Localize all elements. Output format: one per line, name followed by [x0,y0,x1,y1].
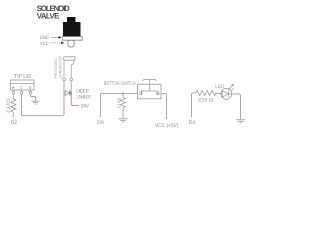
wire TIP120 collector to photocell pin 1 [22,81,65,116]
pushbutton S1 [138,79,162,98]
svg-text:E: E [29,85,32,90]
connector J1 PHOTOCELL CONNECTOR [54,56,75,81]
ground GND3 [236,120,245,123]
svg-text:2.2 KΩ: 2.2 KΩ [5,98,10,113]
wire D4 to resistor R3 [192,93,197,117]
svg-text:PHOTOCELL: PHOTOCELL [54,58,58,79]
svg-text:CONNECTOR: CONNECTOR [59,56,63,79]
svg-text:B: B [12,85,15,90]
label DIODE 1N4007 [76,88,91,100]
solenoid valve SV1 [62,17,82,47]
wire LED to ground [232,94,240,119]
svg-text:D9: D9 [97,120,104,126]
resistor R1 2.2 KΩ [5,94,16,117]
wire button switch to VCC [161,94,167,120]
resistor R3 229 Ω [196,91,216,104]
ground GND1 (emitter) [31,94,40,104]
svg-text:VCC (+5V): VCC (+5V) [155,123,179,129]
resistor R2 10 KΩ [117,93,126,119]
svg-text:1N4007: 1N4007 [76,94,91,100]
svg-text:229 Ω: 229 Ω [198,97,213,103]
diode D3 [64,91,72,96]
svg-text:BUTTON SWITCH: BUTTON SWITCH [104,81,136,87]
wire photocell pin 2 down [70,81,72,93]
label SOLENOID VALVE [37,4,70,20]
LED LED1 [216,84,234,100]
wire D9 to button switch [101,94,138,118]
svg-text:D4: D4 [189,120,196,126]
svg-text:D2: D2 [11,120,17,126]
svg-text:GND: GND [40,35,49,41]
svg-text:24V: 24V [81,104,90,110]
ground GND2 [118,119,127,122]
wire 24V net (red) [71,93,79,105]
svg-text:VCC: VCC [40,41,49,47]
transistor Q1 TIP120 [11,74,35,94]
svg-text:TIP120: TIP120 [14,74,31,80]
label GND with arrow [40,35,61,41]
svg-text:10 KΩ: 10 KΩ [117,97,122,109]
svg-text:C: C [20,85,23,90]
svg-text:VALVE: VALVE [37,12,60,21]
label VCC with dashed arrow [40,41,64,47]
